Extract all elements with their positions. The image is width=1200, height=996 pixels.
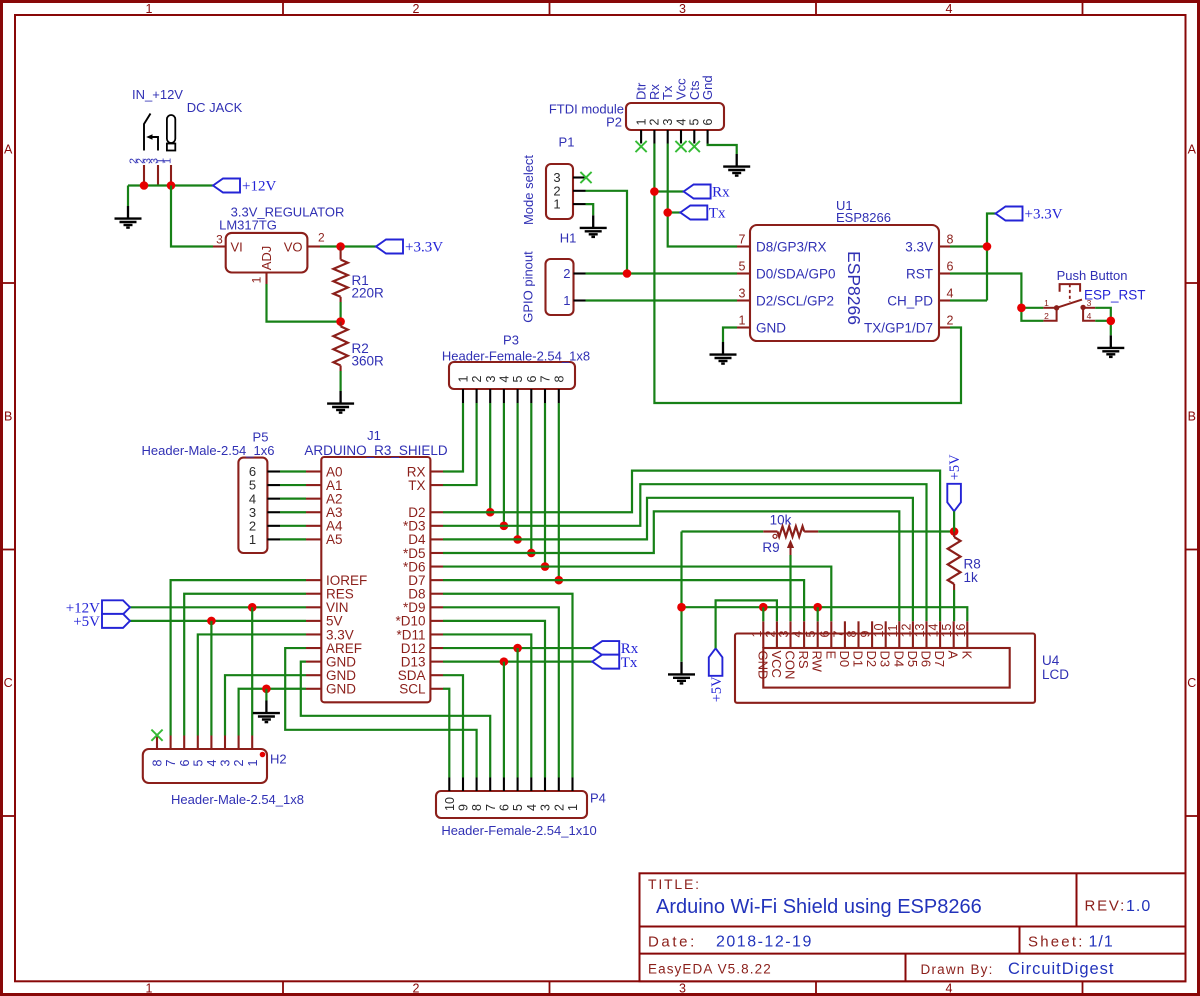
svg-text:4: 4 [498, 376, 512, 383]
svg-text:13: 13 [913, 624, 927, 638]
svg-text:5: 5 [511, 376, 525, 383]
svg-text:5: 5 [739, 260, 746, 274]
svg-text:D2/SCL/GP2: D2/SCL/GP2 [756, 293, 834, 308]
svg-text:TX/GP1/D7: TX/GP1/D7 [864, 320, 933, 335]
svg-text:Drawn By:: Drawn By: [921, 962, 994, 977]
svg-text:4: 4 [1087, 311, 1092, 321]
svg-text:4: 4 [947, 287, 954, 301]
svg-text:4: 4 [946, 982, 953, 996]
svg-text:4: 4 [946, 2, 953, 16]
svg-text:REV:: REV: [1085, 898, 1127, 915]
svg-text:ESP8266: ESP8266 [844, 251, 864, 325]
svg-text:D2: D2 [864, 651, 879, 668]
svg-text:P4: P4 [590, 791, 606, 806]
svg-text:R9: R9 [762, 540, 779, 555]
svg-text:RST: RST [906, 266, 933, 281]
svg-text:GND: GND [326, 682, 356, 697]
svg-text:3: 3 [777, 631, 791, 638]
svg-text:Arduino Wi-Fi Shield using ESP: Arduino Wi-Fi Shield using ESP8266 [656, 896, 982, 918]
svg-text:1: 1 [249, 532, 256, 547]
svg-text:LCD: LCD [1042, 667, 1069, 682]
svg-text:P2: P2 [606, 115, 622, 130]
svg-text:3: 3 [661, 119, 675, 126]
svg-text:5: 5 [804, 631, 818, 638]
svg-text:1: 1 [146, 2, 153, 16]
svg-text:8: 8 [470, 804, 484, 811]
svg-text:3: 3 [484, 376, 498, 383]
svg-text:H1: H1 [560, 231, 577, 246]
svg-text:9: 9 [859, 631, 873, 638]
svg-text:LM317TG: LM317TG [219, 218, 277, 233]
svg-text:ESP8266: ESP8266 [836, 210, 891, 225]
svg-text:A: A [1188, 143, 1197, 157]
svg-text:7: 7 [831, 631, 845, 638]
svg-text:11: 11 [886, 624, 900, 637]
svg-text:2: 2 [413, 2, 420, 16]
svg-text:2: 2 [413, 982, 420, 996]
svg-text:Rx: Rx [712, 185, 730, 201]
svg-text:15: 15 [940, 624, 954, 638]
svg-text:D0/SDA/GP0: D0/SDA/GP0 [756, 266, 836, 281]
svg-text:5: 5 [511, 804, 525, 811]
svg-text:DC JACK: DC JACK [187, 100, 243, 115]
svg-text:Push Button: Push Button [1057, 268, 1128, 283]
svg-text:Gnd: Gnd [700, 75, 715, 100]
svg-text:+5V: +5V [73, 614, 100, 630]
svg-text:8: 8 [552, 376, 566, 383]
svg-text:Header-Female-2.54_1x8: Header-Female-2.54_1x8 [442, 349, 590, 364]
svg-text:SCL: SCL [399, 682, 426, 697]
svg-text:1/1: 1/1 [1089, 934, 1114, 951]
svg-text:C: C [1187, 676, 1196, 690]
svg-text:RW: RW [810, 651, 825, 673]
svg-text:2: 2 [232, 760, 246, 767]
svg-text:7: 7 [484, 804, 498, 811]
svg-text:D5: D5 [905, 651, 920, 668]
svg-text:3: 3 [739, 287, 746, 301]
svg-text:2: 2 [648, 119, 662, 126]
svg-text:Date:: Date: [648, 934, 697, 951]
svg-text:Tx: Tx [621, 655, 638, 671]
svg-text:5: 5 [191, 760, 205, 767]
svg-text:P1: P1 [559, 135, 575, 150]
svg-text:1: 1 [246, 760, 260, 767]
svg-text:A: A [4, 143, 13, 157]
svg-text:6: 6 [525, 376, 539, 383]
svg-text:1: 1 [634, 119, 648, 126]
svg-text:12: 12 [899, 624, 913, 638]
svg-text:7: 7 [539, 376, 553, 383]
svg-text:3: 3 [1087, 298, 1092, 308]
svg-text:D1: D1 [851, 651, 866, 668]
svg-text:+5V: +5V [947, 454, 963, 480]
svg-text:+12V: +12V [242, 179, 276, 195]
svg-text:5: 5 [688, 119, 702, 126]
svg-text:1: 1 [146, 982, 153, 996]
svg-text:1: 1 [1044, 298, 1049, 308]
svg-text:4: 4 [525, 804, 539, 811]
svg-text:K: K [959, 651, 974, 660]
svg-text:GND: GND [756, 320, 786, 335]
svg-text:4: 4 [674, 119, 688, 126]
svg-text:2: 2 [318, 231, 325, 245]
svg-text:+3.3V: +3.3V [1025, 207, 1063, 223]
svg-text:B: B [4, 410, 12, 424]
svg-text:1: 1 [553, 197, 560, 212]
svg-text:RS: RS [796, 651, 811, 669]
svg-text:3: 3 [679, 982, 686, 996]
svg-text:D3: D3 [878, 651, 893, 668]
svg-text:6: 6 [178, 760, 192, 767]
svg-text:TITLE:: TITLE: [648, 876, 701, 892]
svg-text:D8/GP3/RX: D8/GP3/RX [756, 239, 827, 254]
svg-text:TX: TX [408, 478, 425, 493]
svg-text:360R: 360R [352, 354, 385, 369]
svg-text:1: 1 [750, 631, 764, 638]
svg-text:CH_PD: CH_PD [887, 293, 933, 308]
svg-text:D6: D6 [919, 651, 934, 668]
svg-text:1: 1 [162, 158, 174, 164]
svg-text:9: 9 [457, 804, 471, 811]
svg-text:2: 2 [947, 314, 954, 328]
svg-text:+3.3V: +3.3V [405, 240, 443, 256]
svg-text:VO: VO [284, 240, 303, 255]
svg-text:D4: D4 [891, 651, 906, 668]
svg-text:220R: 220R [352, 286, 385, 301]
svg-text:6: 6 [947, 260, 954, 274]
svg-text:8: 8 [845, 631, 859, 638]
svg-text:3.3V: 3.3V [905, 239, 933, 254]
svg-text:A: A [946, 651, 961, 660]
svg-text:1.0: 1.0 [1126, 898, 1151, 915]
svg-text:2: 2 [763, 631, 777, 638]
svg-text:+5V: +5V [709, 676, 725, 702]
svg-text:Header-Male-2.54_1x8: Header-Male-2.54_1x8 [171, 792, 304, 807]
svg-text:10k: 10k [770, 513, 792, 528]
svg-text:3: 3 [219, 760, 233, 767]
svg-text:7: 7 [739, 233, 746, 247]
svg-text:14: 14 [927, 624, 941, 638]
svg-text:10: 10 [443, 797, 457, 811]
svg-text:2: 2 [1044, 311, 1049, 321]
svg-text:1: 1 [563, 293, 570, 308]
svg-text:2: 2 [563, 266, 570, 281]
svg-text:A5: A5 [326, 532, 343, 547]
svg-text:CircuitDigest: CircuitDigest [1008, 960, 1115, 978]
svg-text:IN_+12V: IN_+12V [132, 87, 183, 102]
svg-text:Header-Male-2.54_1x6: Header-Male-2.54_1x6 [142, 443, 275, 458]
svg-text:16: 16 [954, 624, 968, 638]
svg-text:P3: P3 [503, 333, 519, 348]
svg-text:Tx: Tx [709, 206, 726, 222]
svg-text:6: 6 [701, 119, 715, 126]
svg-text:GPIO pinout: GPIO pinout [521, 251, 536, 323]
svg-text:ESP_RST: ESP_RST [1084, 288, 1146, 303]
svg-text:VI: VI [231, 240, 243, 255]
svg-text:6: 6 [498, 804, 512, 811]
svg-text:6: 6 [818, 631, 832, 638]
svg-text:B: B [1188, 410, 1196, 424]
svg-text:2: 2 [470, 376, 484, 383]
svg-text:EasyEDA V5.8.22: EasyEDA V5.8.22 [648, 962, 772, 977]
svg-text:CON: CON [783, 651, 798, 680]
svg-text:2: 2 [552, 804, 566, 811]
svg-text:1: 1 [457, 376, 471, 383]
svg-text:Sheet:: Sheet: [1028, 934, 1085, 951]
svg-text:8: 8 [947, 233, 954, 247]
svg-text:C: C [4, 676, 13, 690]
svg-text:1: 1 [739, 314, 746, 328]
svg-text:4: 4 [205, 760, 219, 767]
svg-text:Mode select: Mode select [521, 155, 536, 225]
svg-text:7: 7 [164, 760, 178, 767]
svg-text:ARDUINO_R3_SHIELD: ARDUINO_R3_SHIELD [304, 443, 448, 458]
svg-text:E: E [823, 651, 838, 660]
svg-text:U4: U4 [1042, 653, 1060, 668]
svg-text:1: 1 [566, 804, 580, 811]
svg-text:VCC: VCC [769, 651, 784, 678]
svg-text:10: 10 [872, 624, 886, 638]
svg-text:Header-Female-2.54_1x10: Header-Female-2.54_1x10 [441, 823, 596, 838]
svg-text:3: 3 [539, 804, 553, 811]
svg-text:8: 8 [151, 760, 165, 767]
svg-text:3: 3 [679, 2, 686, 16]
svg-text:H2: H2 [270, 752, 287, 767]
svg-text:ADJ: ADJ [259, 246, 274, 271]
svg-text:GND: GND [755, 651, 770, 680]
svg-text:D7: D7 [932, 651, 947, 668]
svg-text:1: 1 [250, 276, 264, 283]
svg-text:1k: 1k [964, 570, 979, 585]
svg-text:3: 3 [216, 233, 223, 247]
svg-text:J1: J1 [367, 428, 381, 443]
svg-text:4: 4 [791, 631, 805, 638]
svg-text:2018-12-19: 2018-12-19 [716, 934, 813, 951]
svg-text:D0: D0 [837, 651, 852, 668]
